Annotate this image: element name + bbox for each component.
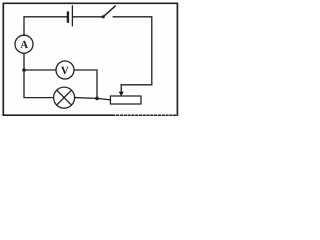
wire: ammeter top to battery negative plate xyxy=(24,17,67,36)
battery (cell) xyxy=(68,6,73,26)
wire: battery to switch pivot xyxy=(73,16,103,18)
wire: voltmeter right lead down to junction xyxy=(74,70,97,98)
label A (ammeter) xyxy=(20,41,28,48)
wire: voltmeter left lead to junction on left wire xyxy=(24,69,56,71)
wire: ammeter bottom down left side to lamp xyxy=(24,53,54,98)
label V (voltmeter) xyxy=(61,67,69,74)
rheostat body R xyxy=(110,96,141,104)
junction: voltmeter to lamp-rheostat wire xyxy=(95,97,99,101)
voltmeter V xyxy=(56,61,74,79)
rheostat wiper arrow xyxy=(119,85,124,96)
switch (open knife switch) xyxy=(102,6,116,18)
lamp (circle with cross) xyxy=(54,87,75,108)
ammeter A xyxy=(15,35,33,53)
wire: rheostat left terminal to lamp xyxy=(75,98,111,100)
wire: switch fixed contact to top-right corner and down right side xyxy=(113,17,152,85)
junction: left wire voltmeter tap xyxy=(22,68,26,72)
wire: right corner to rheostat wiper arrow xyxy=(121,84,152,86)
